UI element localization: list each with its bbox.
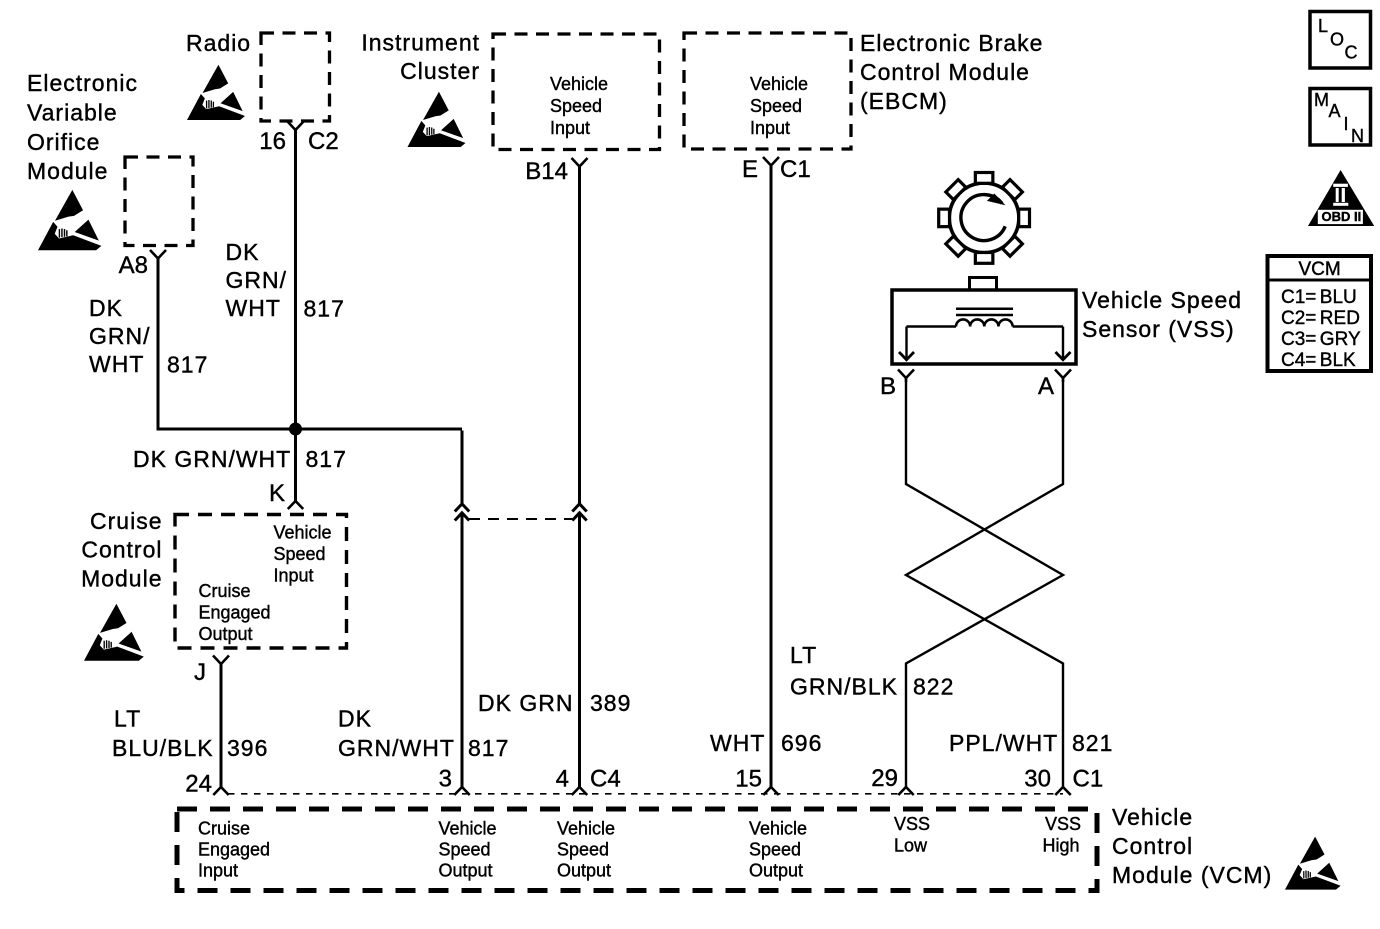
ESD symbol (EVO module) <box>38 190 101 250</box>
LOC legend box <box>1310 12 1371 69</box>
module label: Cruise Control Module <box>81 508 162 592</box>
svg-text:VSS: VSS <box>894 814 930 834</box>
svg-text:Control: Control <box>1112 833 1193 859</box>
Vehicle Control Module (VCM) dashed box <box>177 809 1097 891</box>
svg-text:Module: Module <box>81 566 162 592</box>
ESD symbol (Radio) <box>187 65 245 120</box>
svg-text:C1: C1 <box>1073 766 1104 793</box>
svg-text:16: 16 <box>259 128 286 155</box>
label DK GRN 389 <box>478 690 631 716</box>
svg-text:Variable: Variable <box>27 100 118 126</box>
svg-text:OBD II: OBD II <box>1322 209 1362 224</box>
svg-text:BLU/BLK: BLU/BLK <box>112 735 214 761</box>
svg-text:B14: B14 <box>525 158 568 185</box>
svg-text:Output: Output <box>749 861 803 881</box>
svg-text:817: 817 <box>167 352 208 378</box>
pin E / C1 connector <box>742 156 811 183</box>
junction dot DK GRN/WHT <box>289 423 302 436</box>
svg-text:DK GRN: DK GRN <box>478 690 573 716</box>
pin B14 connector <box>525 158 587 185</box>
module label: Electronic Variable Orifice Module <box>27 70 138 184</box>
svg-text:29: 29 <box>871 765 898 792</box>
ESD symbol (Cruise Control Module) <box>84 604 144 661</box>
svg-text:Speed: Speed <box>749 840 801 860</box>
svg-text:A8: A8 <box>119 252 148 279</box>
label DK GRN/WHT 817 (Radio branch) <box>226 239 345 322</box>
svg-text:Cruise: Cruise <box>90 508 162 534</box>
wire 817 DK GRN/WHT from EVO down and right to junction <box>158 259 462 430</box>
svg-text:N: N <box>1351 126 1364 146</box>
wire 696 WHT from EBCM down to VCM <box>770 166 773 788</box>
svg-text:389: 389 <box>590 690 631 716</box>
svg-text:Orifice: Orifice <box>27 129 100 155</box>
wire 822 LT GRN/BLK (VSS low, twisted) <box>906 378 1063 787</box>
label WHT 696 <box>710 730 822 756</box>
wire 817 DK GRN/WHT from Radio down to junction <box>294 130 297 429</box>
svg-text:Sensor (VSS): Sensor (VSS) <box>1082 316 1235 342</box>
Radio dashed box <box>261 33 330 121</box>
pin B connector <box>880 370 914 401</box>
svg-text:Radio: Radio <box>186 30 251 56</box>
svg-text:Speed: Speed <box>439 840 491 860</box>
svg-text:Speed: Speed <box>550 96 602 116</box>
svg-text:(EBCM): (EBCM) <box>860 88 948 114</box>
svg-text:Cluster: Cluster <box>400 58 480 84</box>
wire from junction down to cruise module pin K <box>294 429 297 501</box>
svg-text:Vehicle: Vehicle <box>1112 804 1193 830</box>
svg-text:Vehicle Speed: Vehicle Speed <box>1082 287 1242 313</box>
label DK GRN/WHT 817 (junction) <box>133 446 347 472</box>
svg-text:Engaged: Engaged <box>199 603 271 623</box>
svg-text:DK: DK <box>89 295 123 321</box>
module label: Vehicle Control Module (VCM) <box>1112 804 1272 888</box>
dashed tie line between chevron breaks <box>469 518 574 520</box>
core lines <box>956 309 1013 315</box>
pin A8 connector <box>119 250 166 279</box>
svg-text:3: 3 <box>439 766 452 793</box>
wire 821 PPL/WHT (VSS high, twisted) <box>906 378 1063 787</box>
pin K connector <box>269 480 303 509</box>
Instrument Cluster dashed box with Vehicle Speed Input <box>493 34 660 150</box>
Cruise Control Module dashed box <box>175 515 347 649</box>
svg-text:Input: Input <box>550 118 590 138</box>
svg-text:GRN/: GRN/ <box>226 267 288 293</box>
svg-text:Low: Low <box>894 836 928 856</box>
svg-text:I: I <box>1344 114 1349 134</box>
label Vehicle Speed Sensor (VSS) <box>1082 287 1242 342</box>
svg-text:Instrument: Instrument <box>361 30 480 56</box>
svg-text:Control Module: Control Module <box>860 59 1030 85</box>
wire 396 LT BLU/BLK from cruise to VCM pin 24 <box>220 664 223 787</box>
svg-text:Output: Output <box>557 861 611 881</box>
svg-text:4: 4 <box>556 766 569 793</box>
VCM pin 24 connector <box>185 771 228 798</box>
svg-text:Electronic: Electronic <box>27 70 138 96</box>
ESD symbol (Instrument Cluster) <box>408 92 466 147</box>
svg-text:WHT: WHT <box>89 351 144 377</box>
label DK GRN/WHT 817 (EVO branch) <box>89 295 208 378</box>
pin A connector <box>1038 370 1071 401</box>
VSS tone wheel gear <box>939 173 1030 264</box>
svg-text:VSS: VSS <box>1045 814 1081 834</box>
svg-text:Cruise: Cruise <box>199 581 251 601</box>
dashed connector tie line across VCM pins <box>228 793 1063 795</box>
coil <box>956 319 1013 326</box>
svg-text:Input: Input <box>198 861 238 881</box>
svg-text:C4: C4 <box>590 766 621 793</box>
svg-text:Vehicle: Vehicle <box>557 819 615 839</box>
label LT BLU/BLK 396 <box>112 706 268 762</box>
svg-text:M: M <box>1314 90 1329 110</box>
svg-text:696: 696 <box>781 730 822 756</box>
pin 16 / C2 connector <box>259 122 338 156</box>
svg-text:396: 396 <box>227 735 268 761</box>
svg-text:30: 30 <box>1024 766 1051 793</box>
pin J connector <box>194 656 229 687</box>
svg-text:Vehicle: Vehicle <box>750 74 808 94</box>
svg-text:LT: LT <box>114 706 141 732</box>
wire 817 DK GRN/WHT branch down to VCM pin 3 with break <box>461 431 464 788</box>
svg-text:J: J <box>194 659 206 686</box>
svg-text:GRN/WHT: GRN/WHT <box>338 735 455 761</box>
svg-text:A: A <box>1038 373 1054 400</box>
svg-text:GRN/BLK: GRN/BLK <box>790 674 898 700</box>
svg-text:WHT: WHT <box>710 730 765 756</box>
VCM pin 3 connector <box>439 766 470 796</box>
label LT GRN/BLK 822 <box>790 642 954 700</box>
svg-text:Vehicle: Vehicle <box>274 523 332 543</box>
svg-text:817: 817 <box>468 735 509 761</box>
label PPL/WHT 821 <box>949 730 1113 756</box>
internal wire with arrows <box>907 327 1064 360</box>
VCM pin 30 / C1 connector <box>1024 766 1103 796</box>
svg-text:DK: DK <box>226 239 260 265</box>
svg-text:PPL/WHT: PPL/WHT <box>949 730 1058 756</box>
svg-text:Engaged: Engaged <box>198 840 270 860</box>
svg-text:C2: C2 <box>308 128 339 155</box>
module label: Electronic Brake Control Module (EBCM) <box>860 30 1043 114</box>
EBCM dashed box with Vehicle Speed Input <box>684 33 851 149</box>
rotation arrow <box>961 195 1005 241</box>
svg-text:822: 822 <box>913 674 954 700</box>
wire 389 DK GRN from cluster down to chevron break <box>578 167 581 504</box>
svg-text:817: 817 <box>304 296 345 322</box>
svg-text:Cruise: Cruise <box>198 819 250 839</box>
OBD II triangle symbol <box>1308 170 1374 226</box>
svg-text:DK GRN/WHT: DK GRN/WHT <box>133 446 291 472</box>
svg-text:Module: Module <box>27 158 108 184</box>
svg-text:Vehicle: Vehicle <box>550 74 608 94</box>
svg-text:24: 24 <box>185 771 212 798</box>
svg-text:C2=RED: C2=RED <box>1281 308 1360 329</box>
svg-text:GRN/: GRN/ <box>89 323 151 349</box>
chevron break on wire 3 <box>455 504 469 521</box>
svg-text:817: 817 <box>306 446 347 472</box>
wire 389 DK GRN resume below break <box>578 514 581 788</box>
svg-text:K: K <box>269 480 285 507</box>
label DK GRN/WHT 817 (pin 3 branch) <box>338 706 509 762</box>
svg-text:C1=BLU: C1=BLU <box>1281 287 1357 308</box>
VSS sensor box <box>892 278 1076 365</box>
svg-text:Input: Input <box>274 566 314 586</box>
svg-text:A: A <box>1329 101 1341 121</box>
VCM pin 15 connector <box>735 766 778 796</box>
svg-text:Vehicle: Vehicle <box>439 819 497 839</box>
module label: Instrument Cluster <box>361 30 480 85</box>
VCM pin 4 / C4 connector <box>556 766 621 796</box>
chevron break on wire 4 <box>572 504 586 521</box>
VCM connector color legend table <box>1268 256 1372 371</box>
svg-text:L: L <box>1318 16 1328 36</box>
svg-text:Electronic Brake: Electronic Brake <box>860 30 1043 56</box>
svg-text:WHT: WHT <box>226 295 281 321</box>
svg-text:Control: Control <box>81 537 162 563</box>
svg-text:Speed: Speed <box>274 544 326 564</box>
svg-text:Input: Input <box>750 118 790 138</box>
svg-text:Output: Output <box>439 861 493 881</box>
svg-text:Speed: Speed <box>750 96 802 116</box>
svg-text:VCM: VCM <box>1299 259 1341 280</box>
svg-text:15: 15 <box>735 766 762 793</box>
svg-text:Speed: Speed <box>557 840 609 860</box>
svg-text:C1: C1 <box>780 156 811 183</box>
svg-text:821: 821 <box>1072 730 1113 756</box>
svg-text:C3=GRY: C3=GRY <box>1281 329 1361 350</box>
MAIN legend box <box>1310 89 1371 147</box>
svg-text:E: E <box>742 156 758 183</box>
svg-text:DK: DK <box>338 706 372 732</box>
svg-text:Vehicle: Vehicle <box>749 819 807 839</box>
svg-text:Output: Output <box>199 624 253 644</box>
svg-text:C: C <box>1345 43 1358 63</box>
VCM pin 29 connector <box>871 765 913 795</box>
svg-text:LT: LT <box>790 642 817 668</box>
svg-text:High: High <box>1043 836 1080 856</box>
EVO module dashed box <box>125 157 193 246</box>
svg-text:O: O <box>1330 30 1344 50</box>
svg-text:Module (VCM): Module (VCM) <box>1112 862 1272 888</box>
svg-text:B: B <box>880 373 896 400</box>
ESD symbol (VCM) <box>1285 837 1341 890</box>
